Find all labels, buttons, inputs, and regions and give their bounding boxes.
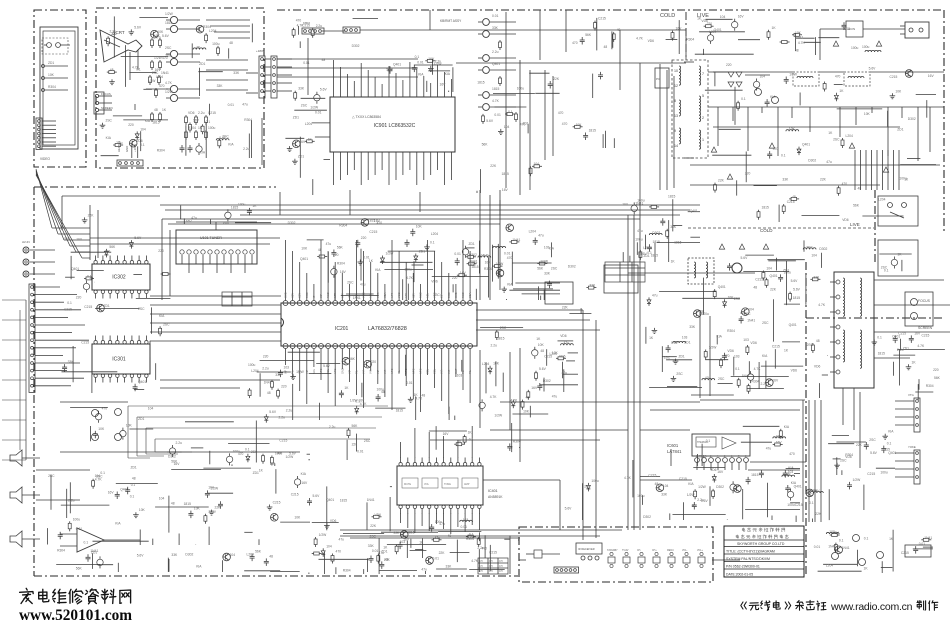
svg-text:Q401: Q401 — [138, 380, 146, 384]
svg-text:VD6: VD6 — [559, 354, 566, 358]
svg-text:1N41: 1N41 — [264, 380, 272, 384]
svg-text:5.6V: 5.6V — [386, 68, 394, 72]
svg-text:LIVE: LIVE — [850, 222, 860, 227]
svg-text:KIA: KIA — [549, 246, 555, 250]
svg-text:12: 12 — [674, 84, 678, 88]
svg-text:220: 220 — [158, 249, 164, 253]
svg-text:VCO: VCO — [397, 292, 401, 298]
svg-text:5.6V: 5.6V — [869, 67, 877, 71]
svg-text:ZD1: ZD1 — [469, 242, 475, 246]
svg-text:L204: L204 — [643, 246, 651, 250]
svg-text:1815: 1815 — [883, 447, 891, 451]
svg-text:1N41: 1N41 — [842, 546, 850, 550]
svg-text:2SC: 2SC — [762, 321, 769, 325]
svg-text:33K: 33K — [813, 275, 820, 279]
svg-text:22K: 22K — [370, 524, 377, 528]
svg-text:D302: D302 — [568, 264, 576, 268]
svg-text:ZD1: ZD1 — [253, 471, 259, 475]
svg-text:V-R: V-R — [383, 370, 387, 374]
svg-text:KIA: KIA — [784, 425, 790, 429]
svg-text:100u: 100u — [880, 470, 888, 474]
svg-text:48: 48 — [196, 46, 200, 50]
svg-text:C215: C215 — [291, 493, 299, 497]
svg-text:4.7K: 4.7K — [636, 37, 644, 41]
svg-text:R304: R304 — [752, 380, 760, 384]
svg-text:2.2u: 2.2u — [116, 141, 123, 145]
svg-text:P/N 0562-29W300-01: P/N 0562-29W300-01 — [726, 565, 760, 569]
svg-text:Q401: Q401 — [794, 485, 802, 489]
svg-text:KEY: KEY — [291, 293, 295, 298]
svg-text:Q401: Q401 — [393, 62, 401, 66]
svg-text:2.2u: 2.2u — [110, 30, 117, 34]
svg-text:2SC: 2SC — [551, 267, 558, 271]
svg-text:5.6V: 5.6V — [741, 256, 749, 260]
svg-text:VIDEO: VIDEO — [40, 157, 50, 161]
svg-text:2SC: 2SC — [364, 439, 371, 443]
svg-text:22K: 22K — [815, 512, 822, 516]
svg-text:+180V: +180V — [256, 49, 265, 53]
svg-text:2SC: 2SC — [869, 438, 876, 442]
svg-text:470: 470 — [562, 122, 568, 126]
svg-text:CH: CH — [499, 560, 503, 563]
svg-text:100u: 100u — [862, 45, 870, 49]
svg-text:56K: 56K — [76, 567, 83, 571]
svg-text:Q401: Q401 — [888, 451, 896, 455]
svg-text:4.7K: 4.7K — [917, 344, 925, 348]
svg-text:1815: 1815 — [492, 87, 500, 91]
svg-text:2.2u: 2.2u — [897, 348, 904, 352]
svg-text:FIL: FIL — [291, 370, 295, 374]
svg-text:VD6: VD6 — [727, 349, 734, 353]
svg-text:47u: 47u — [637, 229, 643, 233]
svg-text:R304: R304 — [926, 384, 934, 388]
svg-text:33K: 33K — [298, 87, 305, 91]
svg-text:10K: 10K — [795, 31, 802, 35]
svg-text:L204: L204 — [305, 122, 313, 126]
svg-text:2SC: 2SC — [165, 46, 172, 50]
svg-text:100u: 100u — [787, 503, 795, 507]
svg-text:2: 2 — [702, 116, 704, 120]
svg-text:FOCUS: FOCUS — [918, 299, 931, 303]
svg-text:48: 48 — [457, 440, 461, 444]
svg-text:COLD: COLD — [760, 228, 773, 233]
svg-text:56K: 56K — [537, 267, 544, 271]
svg-text:10K: 10K — [98, 427, 105, 431]
svg-text:2SC: 2SC — [138, 307, 145, 311]
svg-text:0.01: 0.01 — [504, 251, 511, 255]
svg-text:1/2W: 1/2W — [165, 90, 174, 94]
svg-text:10K: 10K — [139, 508, 146, 512]
svg-text:100u: 100u — [238, 202, 246, 206]
svg-text:10K: 10K — [48, 73, 55, 77]
svg-text:0.01: 0.01 — [492, 14, 499, 18]
svg-text:5.6V: 5.6V — [162, 34, 170, 38]
svg-text:47u: 47u — [538, 234, 544, 238]
svg-text:V-R: V-R — [447, 370, 451, 374]
svg-text:FIL: FIL — [355, 370, 359, 374]
svg-text:SIF: SIF — [319, 294, 323, 298]
svg-text:0.01: 0.01 — [406, 381, 413, 385]
svg-text:2SC: 2SC — [807, 343, 814, 347]
svg-text:ZD1: ZD1 — [131, 465, 137, 469]
svg-text:OSD: OSD — [454, 292, 458, 298]
svg-text:103: 103 — [463, 518, 469, 522]
svg-text:16V: 16V — [174, 462, 181, 466]
svg-text:2.2u: 2.2u — [286, 409, 293, 413]
svg-text:2SC: 2SC — [806, 245, 813, 249]
svg-text:0.01: 0.01 — [417, 61, 424, 65]
svg-text:KIA: KIA — [375, 268, 381, 272]
svg-text:100u: 100u — [899, 176, 907, 180]
svg-text:16V: 16V — [772, 379, 779, 383]
svg-text:L204: L204 — [529, 229, 537, 233]
svg-text:1/2W: 1/2W — [319, 533, 328, 537]
svg-text:103: 103 — [682, 336, 688, 340]
svg-text:56K: 56K — [349, 357, 356, 361]
svg-text:220: 220 — [452, 276, 458, 280]
svg-text:L204: L204 — [709, 30, 717, 34]
svg-text:10K: 10K — [157, 30, 164, 34]
svg-text:470: 470 — [336, 550, 342, 554]
svg-text:IC601: IC601 — [667, 443, 679, 448]
svg-text:ZD1: ZD1 — [684, 341, 690, 345]
svg-text:22K: 22K — [718, 179, 725, 183]
svg-text:220: 220 — [76, 295, 82, 299]
svg-text:VD6: VD6 — [791, 369, 798, 373]
svg-text:SCL: SCL — [433, 368, 437, 374]
svg-text:103: 103 — [734, 355, 740, 359]
svg-text:AN5891K: AN5891K — [488, 495, 503, 499]
svg-text:104: 104 — [270, 462, 276, 466]
svg-text:1815: 1815 — [878, 352, 886, 356]
svg-text:103: 103 — [743, 338, 749, 342]
svg-text:470: 470 — [773, 147, 779, 151]
svg-text:L204: L204 — [482, 362, 490, 366]
svg-text:Q401: Q401 — [718, 285, 726, 289]
svg-text:2SC: 2SC — [301, 104, 308, 108]
svg-text:C215: C215 — [699, 454, 707, 458]
svg-text:VD6: VD6 — [375, 513, 382, 517]
svg-text:2SC: 2SC — [48, 474, 55, 478]
svg-text:4.7K: 4.7K — [798, 41, 806, 45]
svg-text:0.1: 0.1 — [647, 251, 652, 255]
svg-text:0.01: 0.01 — [494, 113, 501, 117]
svg-text:KB/RMT ASSY: KB/RMT ASSY — [440, 19, 462, 23]
svg-text:16V: 16V — [108, 491, 115, 495]
svg-text:100u: 100u — [73, 517, 81, 521]
svg-text:2.2u: 2.2u — [477, 546, 484, 550]
svg-text:Q401: Q401 — [690, 209, 698, 213]
svg-text:FOCUS: FOCUS — [101, 92, 111, 96]
svg-text:KIA: KIA — [159, 314, 165, 318]
svg-text:104: 104 — [504, 125, 510, 129]
svg-text:ZD1: ZD1 — [679, 355, 685, 359]
svg-text:VD6: VD6 — [431, 279, 438, 283]
svg-text:22K: 22K — [105, 250, 112, 254]
svg-text:470: 470 — [558, 111, 564, 115]
svg-text:D302: D302 — [643, 515, 651, 519]
svg-text:33K: 33K — [589, 284, 596, 288]
svg-text:SIF: SIF — [440, 294, 444, 298]
svg-text:1815: 1815 — [793, 296, 801, 300]
svg-text:2.2u: 2.2u — [491, 343, 498, 347]
svg-text:47u: 47u — [339, 537, 345, 541]
svg-text:SYSTEM PAL/NTSC/DK/I/M: SYSTEM PAL/NTSC/DK/I/M — [726, 557, 770, 561]
svg-text:16V: 16V — [193, 119, 200, 123]
svg-text:Q401: Q401 — [326, 498, 334, 502]
svg-text:0.1: 0.1 — [706, 439, 711, 443]
svg-text:47u: 47u — [564, 341, 570, 345]
svg-text:ZD1: ZD1 — [199, 62, 205, 66]
svg-text:47u: 47u — [652, 293, 658, 297]
svg-text:GND: GND — [340, 368, 344, 374]
svg-text:33K: 33K — [689, 325, 696, 329]
svg-text:VD6: VD6 — [814, 364, 821, 368]
svg-text:CH+: CH+ — [652, 550, 657, 552]
svg-text:100u: 100u — [212, 42, 220, 46]
svg-text:56K: 56K — [934, 376, 941, 380]
svg-text:0.01: 0.01 — [357, 450, 364, 454]
svg-text:LA7841: LA7841 — [667, 449, 682, 454]
svg-text:48: 48 — [792, 195, 796, 199]
svg-text:220: 220 — [361, 236, 367, 240]
svg-text:1/2W: 1/2W — [687, 493, 696, 497]
svg-text:100u: 100u — [851, 46, 859, 50]
svg-text:48: 48 — [692, 503, 696, 507]
svg-text:1815: 1815 — [668, 194, 676, 198]
svg-text:16V: 16V — [155, 68, 162, 72]
svg-text:10K: 10K — [523, 410, 530, 414]
svg-text:L204: L204 — [251, 369, 259, 373]
svg-text:MUTE: MUTE — [404, 483, 411, 486]
svg-text:2SC: 2SC — [347, 281, 354, 285]
svg-text:5.6V: 5.6V — [791, 279, 799, 283]
svg-text:1/2W: 1/2W — [698, 485, 707, 489]
svg-text:33K: 33K — [275, 373, 282, 377]
svg-text:33K: 33K — [661, 492, 668, 496]
svg-text:4.7K: 4.7K — [132, 66, 140, 70]
svg-text:1815: 1815 — [751, 473, 759, 477]
svg-text:CH-: CH- — [637, 550, 641, 552]
svg-text:1815: 1815 — [502, 172, 510, 176]
svg-text:KEY: KEY — [411, 293, 415, 298]
svg-text:33K: 33K — [446, 565, 453, 569]
svg-text:VOL: VOL — [424, 483, 430, 486]
svg-text:0.1: 0.1 — [84, 540, 89, 544]
svg-text:47u: 47u — [326, 242, 332, 246]
svg-text:104: 104 — [720, 15, 726, 19]
svg-text:VD6: VD6 — [710, 468, 717, 472]
svg-text:220: 220 — [726, 63, 732, 67]
svg-text:0.01: 0.01 — [315, 111, 322, 115]
svg-text:1815: 1815 — [340, 499, 348, 503]
svg-text:ZD1: ZD1 — [783, 268, 789, 272]
svg-text:470: 470 — [238, 452, 244, 456]
svg-text:AFT: AFT — [404, 293, 408, 298]
svg-text:48: 48 — [655, 482, 659, 486]
svg-text:0.1: 0.1 — [140, 143, 145, 147]
svg-text:V-R: V-R — [362, 370, 366, 374]
svg-text:16V: 16V — [440, 83, 447, 87]
svg-text:2SC: 2SC — [584, 484, 591, 488]
svg-text:16V: 16V — [460, 271, 467, 275]
svg-text:100u: 100u — [517, 87, 525, 91]
svg-text:TONE: TONE — [444, 483, 451, 486]
svg-text:ABL: ABL — [426, 293, 430, 298]
svg-text:0.1: 0.1 — [864, 536, 869, 540]
svg-text:R304: R304 — [686, 38, 694, 42]
svg-text:103: 103 — [76, 237, 82, 241]
svg-text:C215: C215 — [81, 341, 89, 345]
svg-text:KIA: KIA — [445, 72, 451, 76]
svg-text:1/2W: 1/2W — [165, 12, 174, 16]
svg-text:2.2u: 2.2u — [198, 111, 205, 115]
svg-text:0.1: 0.1 — [741, 97, 746, 101]
svg-text:C215: C215 — [273, 501, 281, 505]
svg-text:0.1: 0.1 — [87, 274, 92, 278]
svg-text:VOL+: VOL+ — [697, 550, 704, 552]
svg-text:1815: 1815 — [762, 206, 770, 210]
svg-text:22K: 22K — [562, 306, 569, 310]
svg-text:16V: 16V — [186, 219, 193, 223]
svg-text:47u: 47u — [740, 311, 746, 315]
svg-text:KIA: KIA — [145, 119, 151, 123]
svg-text:L204: L204 — [156, 75, 164, 79]
svg-text:VD6: VD6 — [750, 341, 757, 345]
svg-text:16V: 16V — [443, 432, 450, 436]
svg-text:Q401: Q401 — [789, 323, 797, 327]
svg-text:1/2W: 1/2W — [310, 105, 319, 109]
svg-text:2SC: 2SC — [433, 293, 440, 297]
svg-text:2.2u: 2.2u — [68, 499, 75, 503]
svg-text:2SC: 2SC — [664, 355, 671, 359]
svg-text:1N41: 1N41 — [353, 296, 361, 300]
svg-text:1: 1 — [702, 138, 704, 142]
svg-text:100u: 100u — [702, 312, 710, 316]
svg-text:L204: L204 — [431, 232, 439, 236]
svg-text:C215: C215 — [867, 472, 875, 476]
svg-text:470: 470 — [789, 452, 795, 456]
svg-text:2.2u: 2.2u — [279, 415, 286, 419]
svg-text:47u: 47u — [562, 371, 568, 375]
svg-text:22K: 22K — [490, 164, 497, 168]
svg-text:56K: 56K — [337, 246, 344, 250]
svg-text:1N41: 1N41 — [747, 318, 755, 322]
svg-text:STANDBY: STANDBY — [607, 549, 618, 552]
svg-text:2.2u: 2.2u — [761, 382, 768, 386]
svg-text:100u: 100u — [405, 267, 413, 271]
svg-text:4.7K: 4.7K — [490, 395, 498, 399]
svg-text:47u: 47u — [439, 522, 445, 526]
svg-text:5.6V: 5.6V — [320, 88, 328, 92]
svg-text:48: 48 — [540, 349, 544, 353]
svg-text:104: 104 — [230, 553, 236, 557]
svg-text:R304: R304 — [203, 25, 211, 29]
svg-text:SCL: SCL — [312, 368, 316, 374]
svg-text:C215: C215 — [598, 17, 606, 21]
svg-text:1815: 1815 — [471, 265, 479, 269]
svg-text:ZD1: ZD1 — [298, 155, 304, 159]
svg-text:VCO: VCO — [362, 292, 366, 298]
svg-text:220: 220 — [352, 442, 358, 446]
svg-text:2SC: 2SC — [806, 491, 813, 495]
svg-text:RGB: RGB — [447, 292, 451, 298]
svg-text:56K: 56K — [109, 245, 116, 249]
svg-text:TV/AV: TV/AV — [622, 549, 629, 552]
svg-text:1815: 1815 — [165, 21, 173, 25]
svg-text:220: 220 — [263, 354, 269, 358]
svg-text:D302: D302 — [468, 535, 476, 539]
svg-text:D302: D302 — [716, 485, 724, 489]
svg-text:L204: L204 — [247, 553, 255, 557]
svg-text:ZD1: ZD1 — [48, 61, 54, 65]
svg-text:1815: 1815 — [843, 27, 851, 31]
svg-text:220: 220 — [933, 368, 939, 372]
svg-text:16V: 16V — [502, 188, 509, 192]
svg-text:D302: D302 — [352, 44, 360, 48]
svg-text:220: 220 — [281, 385, 287, 389]
svg-text:0.01: 0.01 — [433, 557, 440, 561]
svg-text:48: 48 — [132, 477, 136, 481]
svg-text:0.01: 0.01 — [76, 527, 83, 531]
svg-text:2SC: 2SC — [734, 297, 741, 301]
svg-text:104: 104 — [148, 406, 154, 410]
svg-text:48: 48 — [604, 45, 608, 49]
svg-text:KEY: KEY — [298, 293, 302, 298]
svg-text:IC302: IC302 — [112, 274, 126, 280]
svg-text:CH: CH — [489, 570, 493, 573]
svg-text:47u: 47u — [155, 36, 161, 40]
svg-text:10K: 10K — [294, 516, 301, 520]
svg-text:0.01: 0.01 — [461, 525, 468, 529]
svg-text:33K: 33K — [217, 84, 224, 88]
svg-text:Q401: Q401 — [770, 274, 778, 278]
svg-text:100u: 100u — [591, 479, 599, 483]
svg-text:ZD1: ZD1 — [903, 346, 909, 350]
svg-text:100u: 100u — [377, 388, 385, 392]
svg-text:2SC: 2SC — [676, 372, 683, 376]
svg-text:10K: 10K — [301, 246, 308, 250]
svg-text:SKYWORTH GROUP CO.LTD: SKYWORTH GROUP CO.LTD — [737, 542, 785, 546]
svg-text:APC: APC — [404, 369, 408, 374]
svg-text:D302: D302 — [469, 253, 477, 257]
svg-text:4.7K: 4.7K — [754, 367, 762, 371]
svg-text:10K: 10K — [789, 127, 796, 131]
svg-text:R304: R304 — [244, 118, 252, 122]
svg-text:C215: C215 — [64, 308, 72, 312]
svg-text:1N41: 1N41 — [635, 201, 643, 205]
svg-text:22K: 22K — [820, 178, 827, 182]
svg-text:5.6V: 5.6V — [539, 367, 547, 371]
svg-text:470: 470 — [520, 122, 526, 126]
svg-text:5.6V: 5.6V — [813, 489, 821, 493]
svg-text:22K: 22K — [394, 531, 401, 535]
svg-text:104: 104 — [326, 544, 332, 548]
svg-text:KIA: KIA — [888, 430, 894, 434]
svg-text:D302: D302 — [908, 117, 916, 121]
svg-text:www.radio.com.cn: www.radio.com.cn — [830, 601, 913, 613]
svg-text:5.6V: 5.6V — [313, 494, 321, 498]
svg-text:SCREEN: SCREEN — [918, 326, 933, 330]
svg-text:1/2W: 1/2W — [853, 478, 862, 482]
svg-text:D302: D302 — [543, 379, 551, 383]
svg-text:R304: R304 — [48, 85, 56, 89]
svg-text:IF: IF — [312, 295, 316, 298]
svg-text:100u: 100u — [208, 510, 216, 514]
svg-text:10K: 10K — [384, 558, 391, 562]
svg-text:48: 48 — [171, 501, 175, 505]
svg-text:APC: APC — [411, 369, 415, 374]
